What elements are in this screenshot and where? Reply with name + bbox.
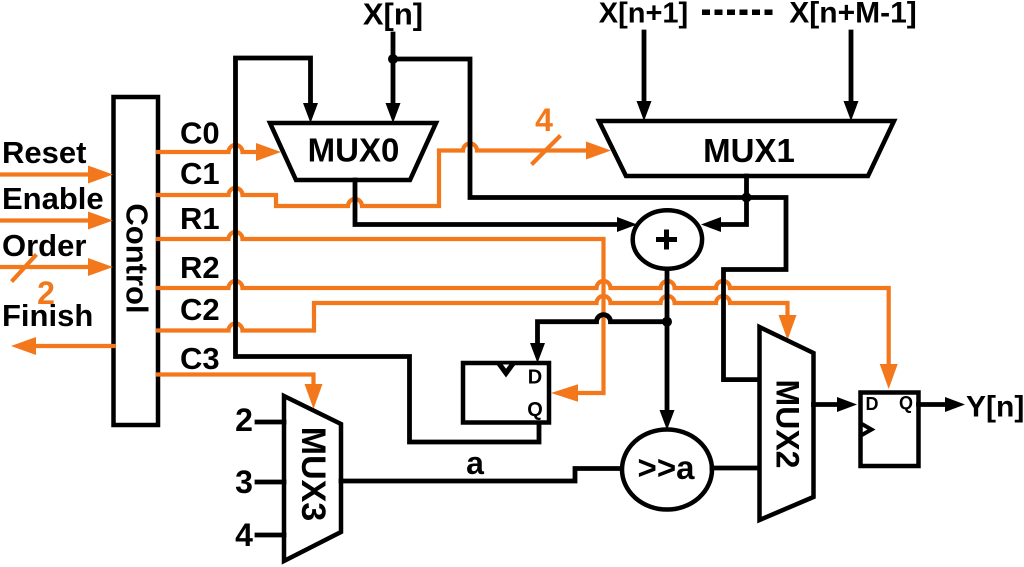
svg-text:4: 4 <box>535 102 553 138</box>
clock chevron <box>497 365 516 378</box>
wire R1 (to register D input) <box>158 232 604 393</box>
wire X[n] branch to MUX2 path <box>393 59 786 380</box>
mux MUX2 <box>760 327 814 520</box>
wire junction to register D <box>538 315 668 343</box>
wire C0 <box>158 145 258 152</box>
clock chevron <box>861 424 872 436</box>
svg-text:MUX1: MUX1 <box>703 132 795 169</box>
svg-text:Q: Q <box>527 399 543 421</box>
svg-text:MUX0: MUX0 <box>308 132 400 169</box>
bus slash C1 <box>533 137 559 163</box>
svg-text:C1: C1 <box>180 156 220 191</box>
svg-text:Enable: Enable <box>2 181 104 216</box>
adder <box>633 210 702 269</box>
svg-text:Order: Order <box>2 228 86 263</box>
svg-text:R1: R1 <box>180 201 220 236</box>
svg-text:MUX2: MUX2 <box>770 380 806 469</box>
wire C3 (to MUX3 select) <box>158 375 314 386</box>
svg-text:R2: R2 <box>180 250 220 285</box>
svg-text:C2: C2 <box>180 292 220 327</box>
node junction X[n] <box>388 54 398 64</box>
wire MUX0 output to adder <box>355 180 617 225</box>
register (accumulator D flip-flop) <box>463 363 549 423</box>
wire Reset input <box>0 172 90 176</box>
svg-text:X[n+1]: X[n+1] <box>599 0 688 30</box>
dots ellipsis <box>702 10 773 16</box>
svg-text:D: D <box>528 367 542 389</box>
wire Order input (bus) <box>0 265 90 269</box>
wire MUX1 output to adder <box>721 176 747 225</box>
svg-text:Control: Control <box>119 203 154 313</box>
wire R2 (to output register) <box>158 281 889 365</box>
wire feedback from register Q to MUX0 <box>236 58 540 442</box>
shifter >>a <box>622 430 712 510</box>
mux MUX1 <box>599 121 894 176</box>
svg-text:X[n]: X[n] <box>363 0 423 32</box>
svg-text:X[n+M-1]: X[n+M-1] <box>789 0 917 30</box>
output register (D flip-flop) <box>861 393 919 467</box>
node junction MUX1 output <box>742 193 752 203</box>
wire X[n] into MUX0 <box>391 34 396 103</box>
svg-text:C3: C3 <box>180 341 220 376</box>
svg-text:Q: Q <box>899 393 913 413</box>
svg-text:2: 2 <box>235 402 253 438</box>
mux MUX3 <box>284 396 341 561</box>
wire adder output to shifter <box>665 269 670 410</box>
wire X[n+1] into MUX1 <box>642 32 647 101</box>
svg-text:3: 3 <box>235 464 253 500</box>
svg-text:Reset: Reset <box>2 135 86 170</box>
svg-text:Finish: Finish <box>2 298 93 333</box>
svg-text:D: D <box>866 394 879 414</box>
svg-text:4: 4 <box>235 517 253 553</box>
wire C1 (to MUX1 select, 4-bit bus) <box>158 144 588 206</box>
bus slash Order <box>13 256 35 280</box>
mux MUX0 <box>270 123 436 180</box>
control block <box>114 97 159 425</box>
wire C2 (to MUX2 select) <box>158 296 788 331</box>
svg-text:Y[n]: Y[n] <box>966 391 1024 424</box>
node junction adder output <box>662 317 672 327</box>
wire shifter output to MUX2 <box>712 466 760 471</box>
svg-text:>>a: >>a <box>638 449 696 486</box>
wire Finish output <box>34 344 114 348</box>
wire Enable input <box>0 218 90 222</box>
wire MUX2 output to output register <box>814 402 838 407</box>
svg-text:C0: C0 <box>180 116 220 151</box>
wire X[n+M-1] into MUX1 <box>849 32 854 101</box>
wire MUX3 output a to shifter <box>341 469 622 482</box>
wire Y[n] output <box>919 402 946 407</box>
svg-text:a: a <box>466 445 484 481</box>
svg-text:MUX3: MUX3 <box>294 427 332 521</box>
